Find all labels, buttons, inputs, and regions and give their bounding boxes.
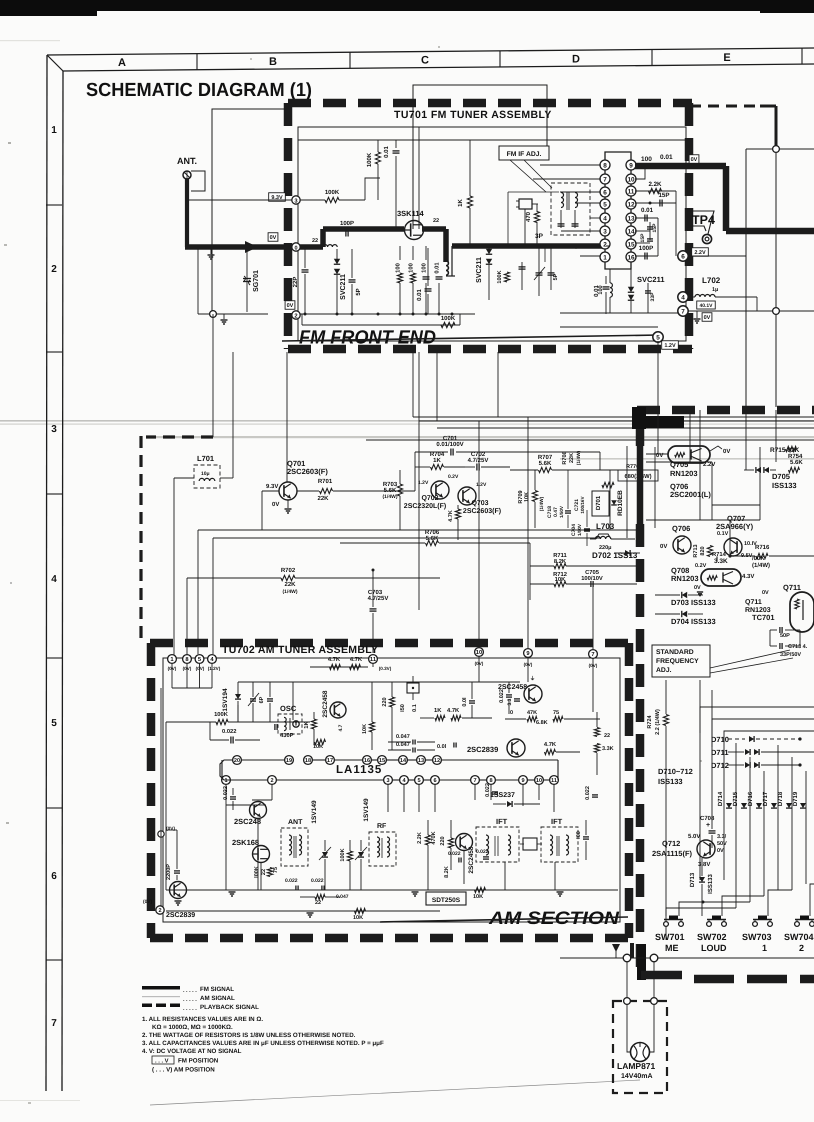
wire pin10 vertical x479 — [478, 421, 480, 647]
svg-text:5.6K: 5.6K — [384, 487, 397, 494]
svg-text:20: 20 — [234, 758, 240, 764]
svg-text:6P: 6P — [259, 696, 265, 703]
svg-text:2SC2458: 2SC2458 — [498, 684, 527, 691]
node circle on thick path — [292, 243, 300, 251]
svg-text:1K: 1K — [457, 198, 464, 206]
cap 15P pin14 vertical — [635, 230, 650, 232]
svg-text:L702: L702 — [702, 276, 721, 285]
IC LA1135 top pin row — [233, 756, 242, 765]
svg-text:47K: 47K — [527, 710, 537, 716]
IF transformer dashed box — [551, 183, 590, 235]
wire node3 to right — [187, 199, 292, 201]
legend AM signal sample line — [142, 996, 180, 997]
thick wire into pin2 — [606, 245, 609, 247]
junction circle on ground bus — [210, 311, 217, 318]
ground Q701 — [287, 500, 289, 508]
svg-text:3.3K: 3.3K — [602, 746, 614, 752]
thick output bar from pin9 — [635, 163, 726, 170]
voltage box 2.2V — [692, 248, 709, 257]
svg-text:FM IF ADJ.: FM IF ADJ. — [507, 151, 542, 158]
cap 5P mid — [550, 248, 552, 290]
medium dashed jumper top right — [690, 105, 762, 108]
diode row D714-D719 symbols — [726, 803, 732, 808]
FM bottom bus — [296, 313, 475, 315]
FM inner thin rect — [298, 127, 686, 341]
AM thick vertical to lamp area — [630, 943, 634, 958]
wire exit right y311 — [688, 310, 773, 312]
svg-text:10: 10 — [476, 649, 482, 656]
frame top outer line — [47, 48, 814, 55]
medium line to corner — [760, 105, 776, 108]
node circle 3 on FM box edge — [292, 196, 300, 204]
svg-text:0V: 0V — [717, 848, 724, 854]
svg-text:0.022: 0.022 — [499, 689, 505, 703]
svg-text:l00K: l00K — [254, 866, 260, 878]
svg-text:2: 2 — [158, 908, 161, 914]
svg-text:1/50V: 1/50V — [577, 523, 582, 536]
svg-text:D701: D701 — [595, 495, 602, 510]
svg-text:D718: D718 — [777, 791, 784, 806]
voltage box 1.2V — [662, 341, 679, 350]
svg-text:D702 1SS13: D702 1SS13 — [592, 551, 638, 560]
top black scan bar — [0, 0, 814, 11]
svg-text:E: E — [723, 52, 730, 64]
svg-text:0.0l: 0.0l — [437, 744, 447, 750]
svg-text:1: 1 — [603, 254, 607, 261]
wire bundle y530 — [198, 529, 637, 531]
svg-text:100K: 100K — [497, 270, 503, 283]
svg-text:8.2K: 8.2K — [554, 558, 567, 565]
transistor Q702 — [431, 481, 449, 499]
resistor R701 22K — [320, 488, 333, 493]
res 3.3K right — [594, 744, 599, 753]
wire L701 right lead riser — [232, 352, 234, 478]
svg-text:0: 0 — [294, 245, 297, 251]
svg-text:. . . . .: . . . . . — [183, 997, 197, 1003]
svg-text:D710~712: D710~712 — [658, 767, 693, 776]
svg-text:0.2V: 0.2V — [448, 474, 459, 480]
transistor Q703 — [458, 487, 476, 505]
trimmer arrow mid — [538, 248, 540, 296]
ground am bottom left — [175, 900, 182, 902]
ground under input path — [210, 249, 212, 254]
svg-text:FM SIGNAL: FM SIGNAL — [200, 986, 234, 993]
wire pin4 left — [590, 217, 601, 219]
svg-text:7: 7 — [591, 652, 594, 658]
ground q708 — [697, 591, 703, 593]
svg-text:D713: D713 — [689, 872, 696, 887]
svg-text:(0.3V): (0.3V) — [379, 666, 392, 671]
svg-text:2: 2 — [603, 241, 607, 248]
svg-text:11: 11 — [551, 778, 557, 784]
wire bundle y538 — [213, 537, 600, 539]
svg-text:75: 75 — [273, 867, 279, 873]
svg-text:RN1203: RN1203 — [670, 469, 698, 478]
resistor 100K at node3 — [325, 197, 339, 202]
svg-text:5.6K: 5.6K — [790, 459, 803, 466]
ground symbol on bus — [223, 314, 225, 319]
svg-text:4.7K: 4.7K — [544, 742, 557, 748]
svg-text:100K: 100K — [214, 711, 229, 718]
svg-text:100/16V: 100/16V — [580, 496, 585, 514]
svg-text:0V: 0V — [272, 501, 279, 508]
svg-text:3: 3 — [386, 778, 389, 784]
svg-text:R716: R716 — [755, 544, 770, 551]
svg-text:2: 2 — [294, 312, 297, 319]
svg-text:1/50V: 1/50V — [559, 505, 564, 518]
svg-text:5.6K: 5.6K — [539, 460, 552, 467]
coil SVC211 drain — [446, 261, 448, 275]
svg-text:0.01: 0.01 — [383, 146, 390, 158]
svg-text:0.0l: 0.0l — [462, 697, 468, 707]
svg-text:(1/4W): (1/4W) — [539, 496, 545, 511]
svg-text:0.022: 0.022 — [585, 786, 591, 800]
svg-text:SVC211: SVC211 — [476, 257, 483, 283]
thick elbow down right of FM box — [723, 166, 730, 231]
svg-text:D712: D712 — [711, 761, 729, 770]
legend FM signal sample line — [142, 986, 180, 990]
wire pin7 left — [533, 178, 601, 180]
svg-text:1K: 1K — [434, 708, 442, 714]
svg-text:0.022: 0.022 — [448, 851, 461, 857]
res R706 5.6K — [426, 540, 439, 545]
svg-text:5: 5 — [417, 778, 420, 784]
frame left inner line — [62, 71, 63, 1091]
svg-text:13: 13 — [627, 215, 635, 222]
svg-text:FM POSITION: FM POSITION — [178, 1058, 219, 1065]
svg-text:Q703: Q703 — [471, 500, 488, 507]
right box corner blob — [632, 407, 646, 429]
switch SW703 — [753, 919, 772, 921]
svg-text:C: C — [421, 55, 429, 67]
right assembly dashed box top edge — [637, 406, 814, 415]
voltage box 0V under node7 — [702, 313, 712, 322]
IC right bus vertical — [675, 191, 677, 256]
wire ant down — [185, 179, 189, 247]
wire pin6 left — [560, 191, 601, 193]
svg-text:4.3V: 4.3V — [742, 573, 754, 580]
IC left pins 8-1 — [600, 160, 610, 170]
res 4.7K 4.7K to pin11 — [310, 666, 368, 668]
wires between transistors — [252, 804, 266, 806]
row divider 3-4 — [46, 493, 62, 495]
svg-text:TC701: TC701 — [752, 613, 775, 622]
wire am mid — [260, 721, 310, 723]
wire pin1 down — [225, 784, 227, 805]
svg-text:33P/50V: 33P/50V — [780, 652, 801, 658]
svg-text:10: 10 — [536, 778, 542, 784]
svg-text:220: 220 — [382, 697, 388, 706]
wires right col x746 x777 continue — [745, 410, 747, 470]
column divider A-B — [196, 54, 198, 70]
svg-text:SW703: SW703 — [742, 932, 772, 942]
svg-text:B: B — [269, 56, 277, 68]
svg-text:1μ: 1μ — [712, 287, 718, 293]
svg-text:I50: I50 — [400, 704, 406, 712]
svg-text:IFT: IFT — [551, 817, 563, 826]
wires right box extra verticals — [689, 410, 691, 462]
svg-text:. . . . .: . . . . . — [183, 988, 197, 994]
note 4 FM position — [152, 1056, 174, 1064]
wire Q701 base left — [262, 490, 279, 492]
svg-text:11: 11 — [370, 657, 377, 663]
AM bottom bus — [166, 889, 618, 891]
AM pin circle 8 — [183, 655, 192, 664]
svg-text:D719: D719 — [792, 791, 799, 806]
AM pin circle 7 — [589, 650, 598, 659]
svg-text:9: 9 — [521, 778, 524, 784]
right tall verticals nest — [700, 707, 814, 733]
strike line through FM FRONT END — [282, 335, 660, 341]
svg-text:FM FRONT END: FM FRONT END — [299, 328, 436, 349]
svg-text:ISS133: ISS133 — [658, 777, 683, 786]
wire bundle horizontal y428 — [437, 427, 814, 429]
svg-text:0.022: 0.022 — [285, 878, 298, 884]
svg-text:33P: 33P — [650, 292, 656, 302]
ceramic filter between IFTs — [523, 838, 537, 850]
junction circle top right — [773, 146, 780, 153]
thick bar to IC pin2 — [446, 275, 455, 277]
svg-text:2.2K: 2.2K — [648, 181, 662, 188]
wire exit right y149 — [780, 148, 814, 150]
res 10K bottom — [355, 908, 366, 913]
svg-text:D703 ISS133: D703 ISS133 — [671, 598, 716, 607]
svg-text:PLAYBACK SIGNAL: PLAYBACK SIGNAL — [200, 1004, 259, 1011]
res 100K bottom — [302, 324, 460, 326]
svg-text:4.7K: 4.7K — [350, 657, 363, 663]
svg-text:1SV149: 1SV149 — [311, 800, 318, 824]
legend playback signal sample line — [142, 1004, 152, 1008]
svg-text:6: 6 — [603, 189, 607, 196]
coil after node — [323, 245, 337, 247]
svg-text:LAMP871: LAMP871 — [617, 1061, 656, 1071]
svg-text:AM SIGNAL: AM SIGNAL — [200, 995, 235, 1002]
right assembly left edge solid thick — [637, 446, 644, 524]
svg-text:C701: C701 — [443, 435, 458, 442]
svg-text:(1/4W): (1/4W) — [283, 589, 298, 595]
svg-text:100/10V: 100/10V — [581, 575, 603, 582]
svg-text:3.3/: 3.3/ — [717, 834, 727, 840]
ceramic resonator square — [407, 683, 419, 693]
transistor pack Q708 RN1203 — [701, 569, 741, 586]
svg-text:D716: D716 — [747, 791, 754, 806]
switch wires upper jogs — [666, 908, 736, 916]
svg-text:2SC2839: 2SC2839 — [166, 912, 195, 919]
svg-text:1: 1 — [762, 943, 767, 953]
res 10K bottom2 — [475, 887, 486, 892]
node circle 2 on FM box edge — [292, 311, 300, 319]
AM pin circle 1 — [168, 655, 177, 664]
res R707 5.6K — [539, 467, 552, 472]
svg-text:TU702 AM TUNER ASSEMBLY: TU702 AM TUNER ASSEMBLY — [222, 644, 378, 656]
svg-text:D704 ISS133: D704 ISS133 — [671, 617, 716, 626]
wire pin9 vertical x528 — [527, 417, 529, 648]
circled 2 bottom left edge — [156, 906, 164, 914]
svg-text:1SV149: 1SV149 — [363, 798, 370, 822]
svg-text:1K: 1K — [433, 457, 441, 464]
svg-text:19: 19 — [286, 758, 292, 764]
wires IF area — [508, 191, 559, 193]
AM upper rail — [238, 681, 520, 683]
svg-text:100: 100 — [641, 156, 652, 163]
transistor 2SC2839 no2 — [170, 882, 187, 899]
svg-text:D717: D717 — [762, 791, 769, 806]
svg-text:22P: 22P — [292, 277, 299, 288]
svg-text:D705: D705 — [772, 472, 790, 481]
transistor pack Q705 RN1203 — [668, 446, 710, 463]
svg-text:TP4: TP4 — [692, 213, 715, 227]
svg-text:2SA1115(F): 2SA1115(F) — [652, 849, 693, 858]
frame corner bevel — [47, 55, 63, 71]
svg-text:0V: 0V — [762, 590, 769, 596]
svg-text:C702: C702 — [471, 451, 486, 458]
svg-text:0V: 0V — [723, 448, 730, 455]
wire R702 to pin8 drop — [186, 578, 188, 655]
coil 100 at left of SVC3 — [610, 283, 612, 297]
wire pin5 left — [575, 202, 601, 204]
wire horizontal y462 right box — [646, 461, 712, 463]
standard freq pointer lines — [710, 650, 790, 668]
svg-text:R713: R713 — [693, 544, 699, 557]
svg-text:D715: D715 — [732, 791, 739, 806]
wire horizontal y505 — [712, 504, 760, 506]
svg-text:10K: 10K — [473, 894, 483, 900]
svg-text:Q712: Q712 — [662, 839, 680, 848]
svg-text:16: 16 — [627, 254, 635, 261]
wire Q701 collector riser — [286, 352, 288, 482]
column divider C-D — [499, 51, 501, 67]
svg-text:14: 14 — [400, 758, 407, 764]
vertical 100 100 100 caps row — [399, 246, 401, 260]
extra verticals right cluster — [609, 470, 611, 530]
res 2.2K pin11 — [635, 190, 676, 192]
strike line through AM SECTION — [380, 917, 628, 922]
voltage box 9.3V — [269, 193, 286, 202]
crystal filter square — [519, 199, 532, 209]
node circle 6 right edge — [678, 251, 688, 261]
svg-text:KΩ = 1000Ω, MΩ = 1000KΩ.: KΩ = 1000Ω, MΩ = 1000KΩ. — [152, 1024, 233, 1031]
svg-text:R704: R704 — [430, 451, 445, 458]
IC LA1135 bottom pin row — [222, 776, 231, 785]
svg-text:1.2V: 1.2V — [418, 480, 429, 486]
wire bundle horizontal y417 — [413, 416, 814, 418]
FM IF ADJ pointer lines — [510, 160, 546, 192]
svg-text:2.2K: 2.2K — [417, 832, 423, 844]
row divider 2-3 — [46, 351, 62, 353]
svg-text:2SC2458: 2SC2458 — [322, 690, 329, 717]
cap 100P pin16 — [635, 255, 658, 257]
wire pin1 left — [580, 255, 601, 257]
cap 33 of SVC3 — [647, 283, 649, 313]
svg-text:0.047: 0.047 — [396, 734, 410, 740]
cap 0.01 pin13 — [635, 217, 658, 219]
junction circle left edge — [158, 831, 164, 837]
row divider 4-5 — [46, 657, 62, 659]
lamp bulb symbol — [631, 1043, 650, 1062]
res R711 8.2K — [554, 563, 566, 568]
svg-text:5.0V: 5.0V — [688, 833, 700, 840]
node circle 7 right edge — [678, 306, 688, 316]
svg-text:13: 13 — [418, 758, 424, 764]
svg-text:Q711: Q711 — [783, 583, 801, 592]
wire left from junction y149 — [746, 148, 773, 150]
svg-text:C703: C703 — [368, 589, 383, 596]
svg-text:17: 17 — [327, 758, 333, 764]
svg-text:100K: 100K — [325, 189, 340, 196]
res 22 vertical right — [594, 728, 599, 737]
node circle 5 bottom edge — [653, 332, 663, 342]
svg-text:TU701 FM TUNER ASSEMBLY: TU701 FM TUNER ASSEMBLY — [394, 109, 552, 121]
ground bus under SG701 — [198, 313, 268, 315]
svg-text:ANT: ANT — [288, 819, 303, 826]
wires am left edge — [165, 722, 167, 890]
svg-text:SDT250S: SDT250S — [432, 897, 461, 904]
svg-text:l00: l00 — [576, 831, 582, 839]
svg-text:2.2V: 2.2V — [694, 250, 706, 256]
svg-text:IFT: IFT — [496, 817, 508, 826]
svg-text:2SC2458: 2SC2458 — [468, 846, 475, 873]
svg-text:ADJ.: ADJ. — [656, 667, 672, 674]
res 22 on bottom bus — [315, 894, 325, 899]
wire lower to node5 — [560, 326, 658, 328]
IC right pins 9-16 — [626, 160, 636, 170]
svg-text:2SC2603(F): 2SC2603(F) — [463, 507, 501, 515]
svg-text:OSC: OSC — [280, 704, 297, 713]
vertical x600 Q703 collector — [599, 452, 601, 470]
wire from circled5 down to Q705 row — [657, 341, 659, 454]
svg-text:50V: 50V — [717, 841, 727, 847]
lamp wires down — [626, 962, 628, 1049]
right assembly bottom playback elbow — [637, 944, 646, 980]
thick drop at x446 — [443, 229, 449, 262]
svg-text:1SS237: 1SS237 — [490, 792, 515, 799]
frame left outer line — [46, 55, 47, 1091]
surge arrester SG701 — [246, 249, 248, 312]
svg-text:4.7K: 4.7K — [328, 657, 341, 663]
svg-text:100P: 100P — [639, 245, 653, 252]
svg-text:R754: R754 — [788, 453, 803, 460]
res 4.7K at 2839 — [545, 749, 556, 754]
wire bundle horizontal y421 — [419, 420, 814, 422]
svg-text:7: 7 — [473, 778, 476, 784]
svg-text:ME: ME — [665, 943, 679, 953]
svg-text:6: 6 — [51, 871, 57, 882]
thick drain line from 3SK114 — [422, 226, 446, 232]
thick riser to 3SK114 — [320, 229, 326, 247]
TU701 FM tuner assembly dashed box — [288, 99, 692, 108]
junction circles on bottom wire — [623, 954, 631, 962]
dust specks — [8, 142, 11, 144]
svg-text:SVC211: SVC211 — [637, 275, 665, 284]
res R704 1K — [431, 464, 444, 469]
res R702 22K — [281, 575, 295, 580]
voltage box 0V at node2 — [285, 301, 295, 310]
diode D705 1SS133 pair — [756, 467, 761, 473]
diode arrow on input path — [245, 241, 258, 253]
FM IF ADJ label box — [499, 146, 549, 160]
wires ANT region verticals — [197, 247, 199, 314]
svg-text:0V: 0V — [270, 235, 277, 241]
column divider D-E — [651, 50, 653, 66]
vertical wires x413 x419 from FM box down — [412, 352, 414, 417]
svg-text:1. ALL RESISTANCES VALUES ARE: 1. ALL RESISTANCES VALUES ARE IN Ω. — [142, 1016, 263, 1023]
svg-text:100K: 100K — [366, 152, 373, 167]
svg-text:5: 5 — [656, 335, 660, 342]
wire pin11 vertical — [372, 641, 374, 653]
test point TP4 — [692, 211, 714, 234]
svg-text:R707: R707 — [538, 454, 553, 461]
svg-text:(1/4W): (1/4W) — [576, 450, 582, 465]
